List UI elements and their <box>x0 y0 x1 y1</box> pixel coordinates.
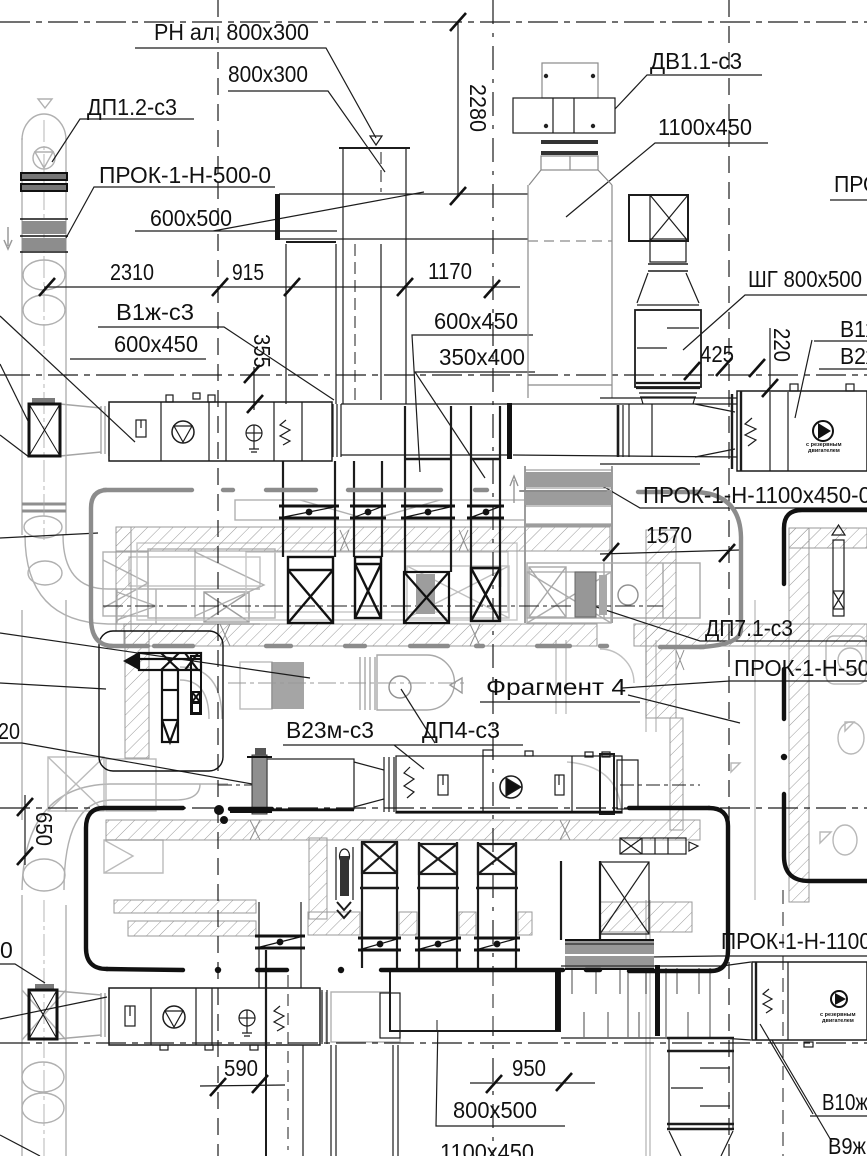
gray flex bands ПРОК-1100 mid <box>510 470 612 506</box>
svg-text:двигателем: двигателем <box>808 448 840 454</box>
small arrow left edge <box>4 227 12 249</box>
narrow duct with arrow <box>336 847 353 918</box>
wall: band between rows y630 <box>124 624 597 646</box>
wall: upper room left vertical <box>116 527 131 631</box>
underline ДВ1.1-с3 + leader <box>615 75 762 109</box>
svg-text:1100x450: 1100x450 <box>440 1139 534 1156</box>
ШГ silencer <box>635 305 701 404</box>
light X boxes left of В23м <box>48 757 156 811</box>
underline В10ж + leaders <box>810 1115 867 1117</box>
thick black rounded duct outline (lower run) <box>86 808 728 973</box>
wall: bottom-right band <box>600 902 692 932</box>
axis line horizontal y808 <box>0 807 867 809</box>
riser R1 lower dark box <box>288 557 333 623</box>
edge leader lines <box>0 316 135 442</box>
svg-text:0: 0 <box>0 937 13 963</box>
ДП4 row centerline <box>228 682 468 684</box>
duct 600x450 to risers <box>341 404 737 457</box>
bottom train inlet cone (light) <box>57 990 109 1040</box>
upper room centerline <box>103 605 663 607</box>
underline ПРОК-1-Н-500-0 + leader <box>66 187 275 238</box>
risers R1-R4 verticals <box>283 406 501 587</box>
underline 600x450 left <box>70 358 206 360</box>
gray verticals right bottom <box>754 600 756 900</box>
underline ДП7.1-с3 + leader <box>581 602 867 641</box>
duct 1100x450 vertical <box>528 185 612 398</box>
small duct box left of 800x500 <box>380 993 400 1038</box>
duct flexible run bottom right <box>561 962 751 1040</box>
fragment column B <box>191 656 201 714</box>
narrow duct with arrow marker right wall <box>832 525 845 616</box>
left elbow to fragment (upper) <box>24 516 260 624</box>
svg-text:ПРОК: ПРОК <box>834 171 867 197</box>
fragment column A <box>162 670 178 742</box>
underline 0 + leader <box>0 964 45 983</box>
svg-text:В23м-с3: В23м-с3 <box>286 717 374 743</box>
underline ПРОК-1-Н-1100x450-0 + leader <box>594 481 867 508</box>
train1 zigzag <box>280 420 290 445</box>
fan unit В2ж right top <box>732 384 867 471</box>
duct 600x450 end cap at x509 <box>507 403 512 459</box>
svg-text:20: 20 <box>0 718 20 744</box>
bottom train feet <box>160 1045 258 1050</box>
underline 600x500 + leader <box>135 192 424 231</box>
thick black C outline (right duct) <box>781 510 867 881</box>
grid vertical x729 <box>728 0 730 1156</box>
wall: right vertical strip x789 <box>789 528 809 902</box>
riser R4 lower dark box <box>471 568 500 621</box>
underline 800x300 + leader <box>228 91 385 172</box>
axis line horizontal y22 <box>0 21 867 23</box>
svg-text:915: 915 <box>232 259 264 285</box>
svg-text:800x300: 800x300 <box>228 61 308 87</box>
bottom flex connector gray <box>565 940 654 969</box>
В23м train casing <box>267 750 622 813</box>
ДП4 upper-level unit row (light) <box>272 655 462 710</box>
door arc room boundary mid <box>600 649 634 683</box>
ДП1.2 collar lines <box>21 173 67 191</box>
ДВ1.1 roof fan assembly <box>513 63 615 185</box>
dashed line x783 bottom right <box>782 890 784 1156</box>
train1 inlet cone (light) <box>60 404 109 456</box>
svg-text:В1ж-с3: В1ж-с3 <box>116 299 194 325</box>
underline ДП4-с3 + leader <box>401 689 435 743</box>
wall: bottom-left L walls <box>114 900 256 913</box>
thick gray rounded duct outline (upper run) <box>91 490 741 647</box>
underline ШГ 800x500 + leader <box>683 295 867 350</box>
wall: band below В23м y822 <box>106 820 700 840</box>
train1 top sensors <box>166 393 215 402</box>
underline В1ж-с3 + leader <box>98 327 334 400</box>
svg-text:ПРОК-1-Н-50: ПРОК-1-Н-50 <box>734 655 867 681</box>
wall: strip left of narrow duct <box>309 838 327 919</box>
underline 20 + leader <box>0 743 258 785</box>
wall: upper room top band <box>116 527 610 551</box>
riser R2 lower dark box <box>355 557 381 618</box>
duct 800x500 rect plan <box>390 969 560 1031</box>
svg-text:В9ж: В9ж <box>828 1133 867 1156</box>
upper-level equipment rect room1 <box>103 549 275 618</box>
svg-text:ПРОК-1-Н-1100: ПРОК-1-Н-1100 <box>721 928 867 954</box>
duct drop below fan unit <box>667 1038 734 1156</box>
axis line horizontal y1043 <box>0 1042 867 1044</box>
grid vertical x218 <box>217 0 219 1156</box>
dim line x770 (220) <box>769 328 771 388</box>
big light X box under duct <box>527 572 611 623</box>
underline ПРОК-1-Н-50 + leader <box>622 681 867 688</box>
underline 800x500 + leader <box>436 1021 565 1126</box>
В2ж fan filled <box>813 421 833 441</box>
svg-text:ДП1.2-с3: ДП1.2-с3 <box>87 94 177 120</box>
wall X-brace marks <box>220 530 684 840</box>
grid vertical x493 <box>492 0 494 1156</box>
svg-text:2310: 2310 <box>110 259 154 285</box>
junction blobs <box>214 805 224 815</box>
svg-text:ПРОК-1-Н-1100x450-0: ПРОК-1-Н-1100x450-0 <box>643 482 867 508</box>
riser dampers R3 <box>401 506 455 518</box>
big X box below right <box>600 862 649 934</box>
fan base mount dots <box>544 74 595 128</box>
duct 600x450 narrow drop <box>286 242 381 404</box>
svg-text:РН ал. 800x300: РН ал. 800x300 <box>154 19 309 45</box>
train1 inlet X box <box>29 398 60 456</box>
axis line horizontal y375 <box>0 374 867 376</box>
svg-text:590: 590 <box>224 1055 258 1081</box>
underline 600x450 mid + leader <box>412 335 533 472</box>
dim line y1085 (590) <box>200 1085 285 1086</box>
underline В23м-с3 + leader <box>283 745 523 769</box>
svg-text:425: 425 <box>700 341 734 367</box>
svg-text:650: 650 <box>31 812 57 846</box>
riser dampers R4 <box>467 506 504 518</box>
svg-text:двигателем: двигателем <box>822 1018 854 1024</box>
duct 600x500 left end cap <box>275 194 280 240</box>
train1 damper symbol <box>136 420 146 437</box>
ДВ1.1 flex bands <box>541 140 598 155</box>
duct 600x500 horizontal <box>279 194 528 239</box>
svg-text:350x400: 350x400 <box>439 344 525 370</box>
В23м bottom thick segments <box>267 810 622 812</box>
wall: right top horizontal <box>789 528 867 548</box>
duct 600x450 drop mid-bottom <box>259 902 398 1156</box>
svg-text:ДП7.1-с3: ДП7.1-с3 <box>705 615 793 641</box>
svg-text:600x500: 600x500 <box>150 205 232 231</box>
В23м row centerline <box>218 784 254 786</box>
underline ДП1.2-с3 + leader <box>52 119 194 162</box>
svg-text:ШГ 800x500: ШГ 800x500 <box>748 266 862 292</box>
fragment arrow head <box>123 652 139 670</box>
light gray duct right of bottom train <box>322 992 400 1042</box>
bottom train inlet X box <box>29 984 57 1039</box>
svg-text:В2ж: В2ж <box>840 343 867 369</box>
wall: fragment vertical strip <box>125 631 149 758</box>
svg-text:2280: 2280 <box>465 84 491 132</box>
duct with damper right of В23м <box>620 838 698 854</box>
ДП7.1 gray connector <box>575 572 596 617</box>
left elbow lower (to bottom train) <box>22 784 228 890</box>
mid elbow duct section x600-737 <box>600 398 737 464</box>
svg-text:355: 355 <box>249 334 275 368</box>
underline 350x400 + leader <box>415 372 535 478</box>
right rooms fixtures <box>731 636 866 855</box>
fragment dark assembly: ladder bar <box>139 653 201 670</box>
triangle marker above ДП1.2 <box>38 99 52 108</box>
В23м fan <box>500 776 522 798</box>
wall: bottom-mid band <box>308 912 360 935</box>
svg-text:1170: 1170 <box>428 258 472 284</box>
dim line y287 (2310/915/1170) <box>44 286 520 288</box>
svg-text:600x450: 600x450 <box>114 331 198 357</box>
svg-text:ДВ1.1-с3: ДВ1.1-с3 <box>650 48 742 74</box>
underlines В1ж/В2ж right + leader <box>814 340 867 342</box>
bottom train fan <box>163 1006 185 1028</box>
svg-text:ДП4-с3: ДП4-с3 <box>422 717 500 743</box>
elbow duct to ШГ <box>629 195 699 303</box>
grid dash visible inside 800x500 rect <box>492 972 494 1030</box>
underline РН ал. 800x300 + leader <box>135 48 376 138</box>
train1 В1ж unit casing <box>109 402 341 461</box>
lower risers verticals <box>360 842 600 968</box>
underline ПРОК cut right <box>830 199 867 201</box>
fan unit В10ж bottom right <box>752 962 867 1047</box>
svg-text:В1ж: В1ж <box>840 316 867 342</box>
gray elbow inside fragment <box>180 667 222 719</box>
svg-text:800x500: 800x500 <box>453 1097 537 1123</box>
dim line x458 (2280) <box>457 22 459 196</box>
flex bar bottom duct <box>655 965 660 1036</box>
ДП4 gray connector fill <box>272 662 304 709</box>
train1 heater <box>246 425 262 452</box>
svg-text:220: 220 <box>769 328 795 362</box>
svg-text:600x450: 600x450 <box>434 308 518 334</box>
fragment boundary rounded rect <box>99 631 223 771</box>
bottom train zigzag <box>274 1006 284 1031</box>
round duct ДП1.2 riser left column <box>22 114 66 1156</box>
svg-text:ПРОК-1-Н-500-0: ПРОК-1-Н-500-0 <box>99 162 271 188</box>
dim line y549 (1570) <box>600 550 740 554</box>
riser R3 lower box with gray band <box>404 572 449 623</box>
riser dampers R2 <box>350 506 386 518</box>
wall: right vertical strip x674 <box>646 530 676 718</box>
riser dampers (bars+bowtie+dot) R1 <box>279 506 339 518</box>
duct 800x300 vertical <box>339 147 410 404</box>
ДП1.2 flex connector dark bands <box>20 219 68 252</box>
svg-text:950: 950 <box>512 1055 546 1081</box>
upper-level duct outline above fragment <box>235 500 525 520</box>
В23м gray connector <box>230 748 272 814</box>
svg-text:В10ж: В10ж <box>822 1089 867 1115</box>
svg-text:1570: 1570 <box>646 522 692 548</box>
В23м right end boxes <box>600 754 638 814</box>
lower riser dampers row <box>255 936 520 950</box>
light trapezoid below-left <box>104 840 163 873</box>
underline ПРОК-1-Н-1100 bottom + leader <box>650 956 867 957</box>
faint inner room outline <box>137 543 517 620</box>
underline 1100x450 + leader <box>566 143 768 217</box>
dim line x254 (355) <box>253 367 255 410</box>
ДП7.1 upper-level unit row (light) <box>527 563 700 618</box>
fan circle in ДП1.2 <box>33 147 55 169</box>
train1 fan <box>172 421 194 443</box>
duct 1100x450 continuation down (gray) <box>525 466 612 623</box>
dim line x25 (650) <box>24 795 26 865</box>
svg-text:1100x450: 1100x450 <box>658 114 752 140</box>
bottom train heater <box>239 1010 255 1036</box>
svg-text:Фрагмент 4: Фрагмент 4 <box>486 674 626 700</box>
faint X box under risers <box>407 566 509 618</box>
dim line y1083 (950) <box>470 1082 595 1084</box>
underline Фрагмент 4 + tail line <box>480 695 740 723</box>
bottom train П casing <box>109 988 327 1045</box>
В10ж fan filled <box>831 991 847 1007</box>
